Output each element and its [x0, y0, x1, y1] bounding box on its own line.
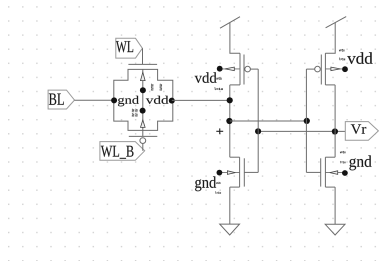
transmission gate PG1 bottom source arrow [141, 120, 146, 127]
NMOS M4 bulk arrow [330, 171, 338, 175]
PMOS M2 bulk lead [325, 68, 342, 70]
PMOS M2 gate bubble [315, 66, 321, 72]
PMOS M2 bulk arrow [331, 67, 340, 71]
wire node X to right inverter gates [230, 120, 307, 122]
wire NMOS M3 to ground [229, 187, 231, 224]
junction dot node X cross-couple [226, 118, 232, 124]
wire NMOS M4 to ground [334, 187, 336, 224]
NMOS M3 bulk dot [217, 170, 223, 176]
node label gnd left [195, 176, 216, 191]
pass-gate pin dot right [169, 98, 175, 104]
wire vdd slash to PMOS M1 [230, 23, 240, 54]
NMOS M3 bulk lead [222, 172, 240, 174]
transmission gate PG1 top source arrow [141, 72, 146, 80]
PMOS M1 gate bar [243, 55, 245, 85]
wire WL_B to pass-gate bottom gate bubble [142, 144, 144, 151]
wire vdd slash to PMOS M2 [325, 23, 335, 54]
transmission gate PG1 top gate bar [128, 63, 157, 65]
NMOS M3 bottom lead [230, 186, 240, 188]
junction dot left gate column [255, 128, 261, 134]
pass-gate well label gnd [118, 96, 139, 107]
junction dot node Y column [332, 128, 338, 134]
wire WL to pass-gate top gate [142, 48, 144, 64]
NMOS M4 channel [324, 157, 326, 187]
NMOS M3 channel [239, 157, 241, 187]
PMOS M1 bulk lead [223, 68, 241, 70]
ground symbol right [325, 224, 345, 235]
PMOS M1 bulk dot [217, 66, 223, 72]
PMOS M2 bulk dot [342, 66, 348, 72]
transmission gate PG1 stem to bottom gate [142, 130, 144, 136]
transmission gate PG1 body [114, 69, 173, 130]
NMOS M3 top lead [230, 156, 240, 158]
power vdd slash right [326, 17, 347, 28]
left gate column wire [257, 69, 259, 172]
PMOS M2 size annotation [339, 49, 345, 60]
PMOS M1 bulk arrow [225, 67, 234, 71]
plus probe annotation [216, 128, 223, 134]
junction dot node X pass-gate [227, 97, 233, 103]
node label vdd left [195, 72, 217, 83]
PMOS M1 drain lead [230, 84, 240, 86]
PMOS M1 gate bubble [245, 66, 251, 72]
NMOS M4 bulk dot [342, 170, 348, 176]
wire BL to pass-gate left terminal [75, 99, 115, 101]
PMOS M1 channel [239, 53, 241, 85]
PMOS M1 gate wire [250, 68, 258, 70]
transmission gate PG1 gate bubble [140, 138, 146, 144]
export flag Vr [345, 122, 378, 141]
export flag BL [48, 90, 74, 109]
wire pass-gate output to node X [172, 99, 230, 101]
PMOS M2 gate bar [320, 55, 322, 85]
PMOS M2 gate wire [306, 68, 314, 70]
node label vdd right [347, 52, 372, 64]
NMOS M4 top lead [325, 156, 335, 158]
transmission gate PG1 bottom gate bar [129, 135, 158, 137]
right gate column wire [305, 69, 307, 172]
node label gnd right [349, 155, 371, 170]
power vdd slash left [220, 17, 240, 29]
NMOS M4 gate wire [306, 171, 320, 173]
NMOS M4 bottom lead [325, 186, 335, 188]
pass-gate well label vdd [146, 96, 169, 104]
PMOS M2 drain lead [325, 84, 335, 86]
junction dot right gate column [304, 118, 310, 124]
NMOS M3 gate wire [244, 171, 258, 173]
export flag WL [116, 38, 143, 58]
right column node Y wire [334, 85, 336, 157]
export flag WL_B [100, 142, 145, 161]
NMOS M4 gate bar [320, 158, 322, 186]
pass-gate size annotation bottom [132, 109, 138, 117]
pass-gate size annotation top [151, 84, 162, 91]
pass-gate pin dot bottom [140, 108, 146, 114]
NMOS M3 bulk arrow [227, 171, 235, 175]
NMOS M3 size annotation [215, 182, 221, 194]
PMOS M2 channel [324, 53, 326, 85]
NMOS M4 bulk lead [325, 172, 343, 174]
node X column wire [229, 85, 231, 157]
NMOS M4 size annotation [340, 151, 345, 163]
NMOS M3 gate bar [243, 158, 245, 186]
pass-gate pin dot left [111, 97, 117, 103]
ground symbol left [220, 224, 240, 235]
wire node Y to left inverter gates and Vr [258, 130, 345, 132]
PMOS M1 size annotation [214, 77, 223, 90]
pass-gate pin dot top [140, 87, 146, 93]
